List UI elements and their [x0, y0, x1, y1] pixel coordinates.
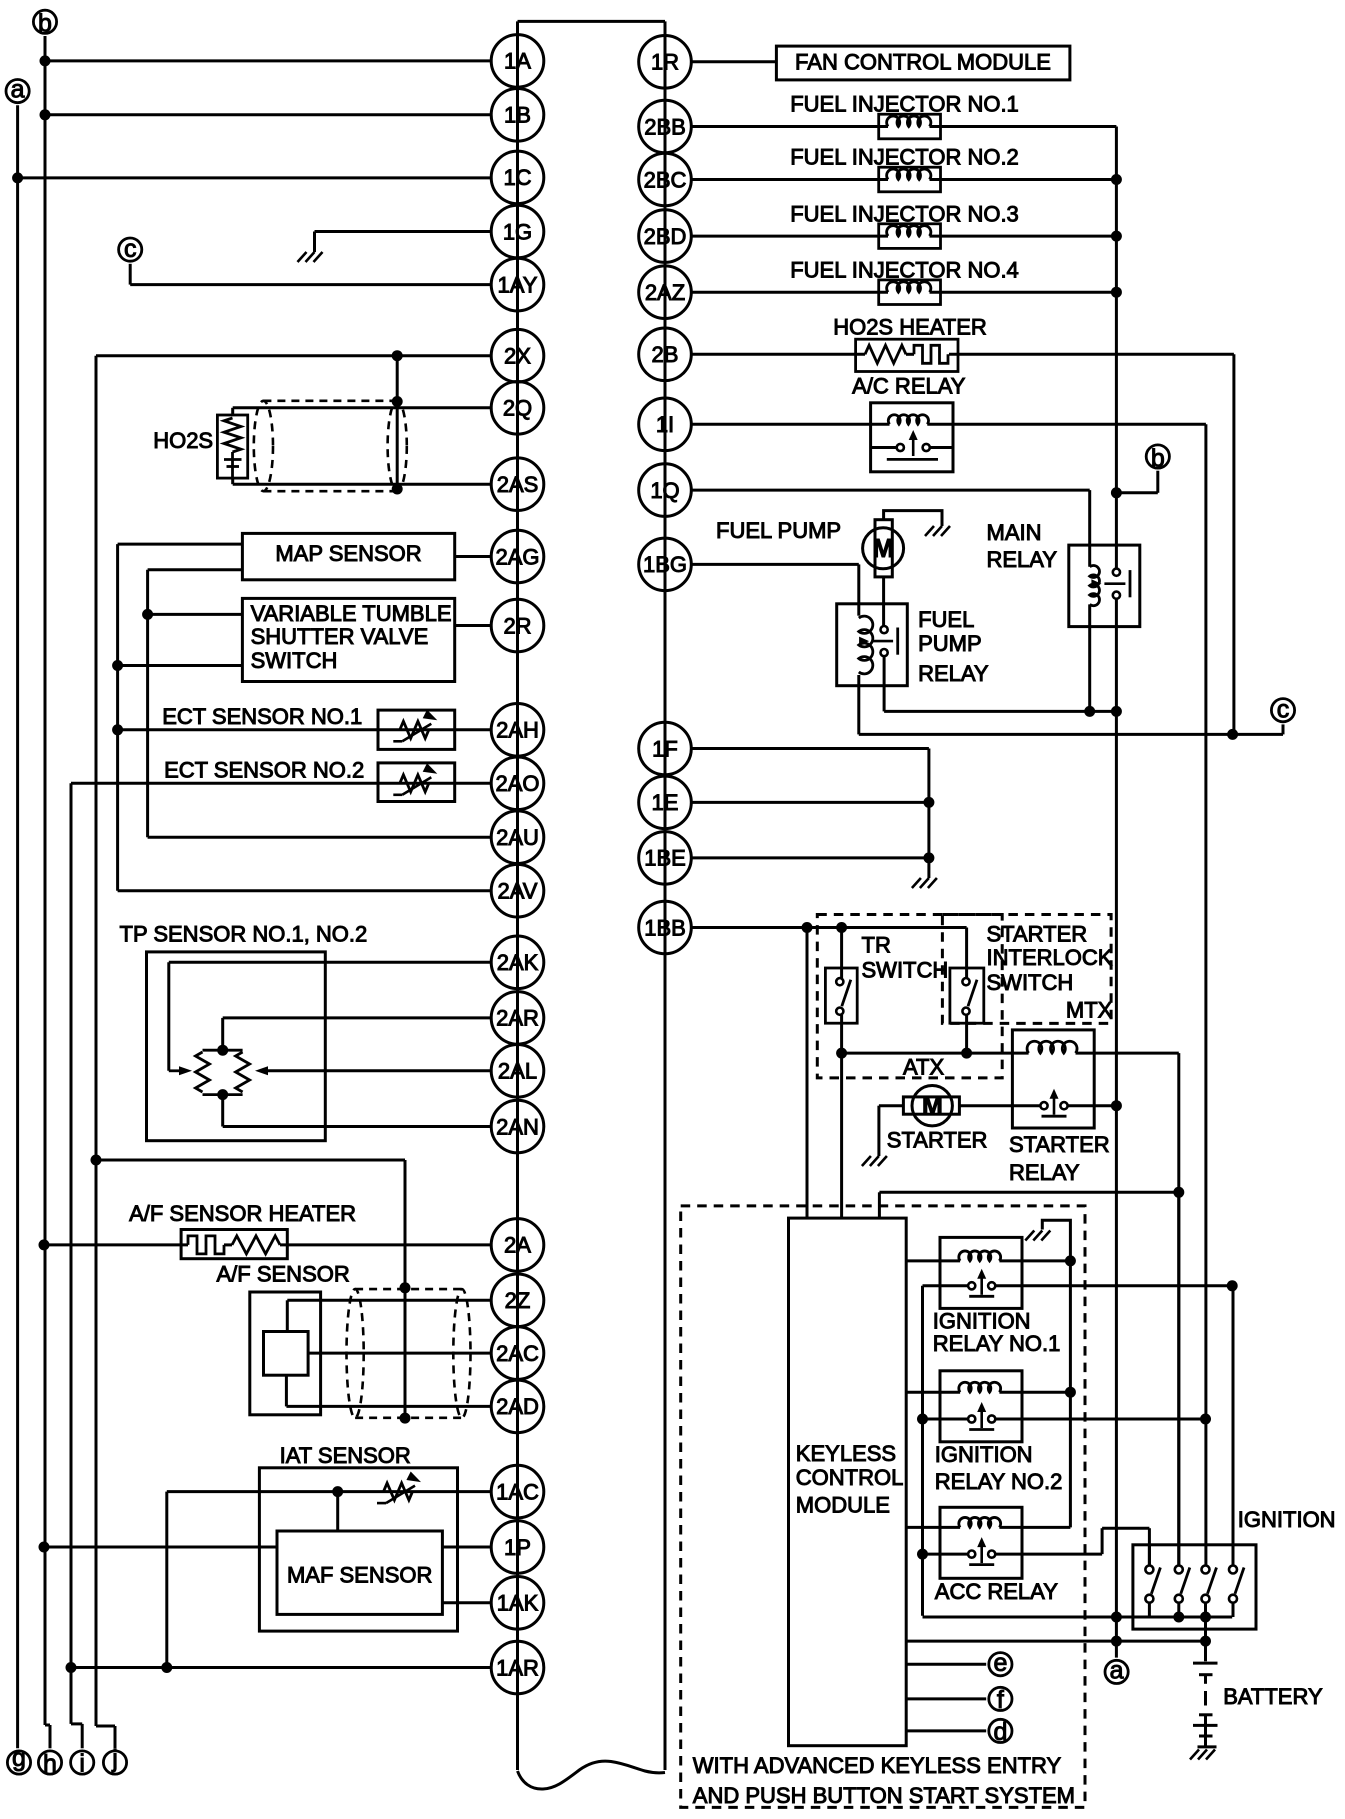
svg-text:1BE: 1BE — [644, 846, 686, 871]
svg-text:MAIN: MAIN — [987, 520, 1042, 545]
svg-text:M: M — [872, 533, 894, 563]
svg-text:AND PUSH BUTTON START SYSTEM: AND PUSH BUTTON START SYSTEM — [693, 1783, 1075, 1808]
svg-text:A/F SENSOR: A/F SENSOR — [217, 1262, 350, 1287]
svg-text:IGNITION: IGNITION — [933, 1309, 1031, 1334]
svg-text:STARTER: STARTER — [887, 1128, 988, 1153]
svg-text:2X: 2X — [504, 344, 531, 369]
svg-text:2AL: 2AL — [498, 1059, 537, 1084]
svg-text:c: c — [1277, 695, 1290, 723]
svg-text:1I: 1I — [656, 412, 674, 437]
svg-text:STARTER: STARTER — [1009, 1132, 1110, 1157]
svg-text:TR: TR — [862, 932, 891, 957]
svg-text:i: i — [79, 1749, 85, 1777]
svg-text:1R: 1R — [651, 50, 679, 75]
svg-text:1E: 1E — [652, 790, 679, 815]
svg-text:1BB: 1BB — [644, 915, 686, 940]
svg-text:a: a — [11, 76, 25, 104]
svg-text:KEYLESS: KEYLESS — [796, 1441, 896, 1466]
svg-text:b: b — [38, 10, 52, 38]
svg-text:RELAY: RELAY — [918, 661, 989, 686]
svg-text:MAP SENSOR: MAP SENSOR — [275, 541, 421, 566]
svg-text:BATTERY: BATTERY — [1223, 1684, 1323, 1709]
svg-text:SWITCH: SWITCH — [251, 648, 338, 673]
svg-text:1B: 1B — [504, 103, 531, 128]
svg-text:2AG: 2AG — [495, 544, 539, 569]
svg-text:FUEL: FUEL — [918, 607, 974, 632]
svg-text:SWITCH: SWITCH — [862, 958, 949, 983]
svg-text:b: b — [1151, 444, 1165, 472]
svg-text:1AK: 1AK — [497, 1591, 539, 1616]
svg-text:2AD: 2AD — [496, 1394, 539, 1419]
svg-text:ECT SENSOR NO.1: ECT SENSOR NO.1 — [162, 704, 362, 729]
svg-text:INTERLOCK: INTERLOCK — [987, 945, 1113, 970]
svg-text:ACC RELAY: ACC RELAY — [935, 1579, 1058, 1604]
svg-text:1BG: 1BG — [643, 552, 687, 577]
svg-text:2AZ: 2AZ — [645, 280, 685, 305]
svg-text:RELAY NO.2: RELAY NO.2 — [935, 1469, 1063, 1494]
svg-text:h: h — [43, 1750, 57, 1778]
svg-text:SWITCH: SWITCH — [987, 970, 1074, 995]
svg-text:IAT SENSOR: IAT SENSOR — [280, 1443, 411, 1468]
svg-text:FUEL PUMP: FUEL PUMP — [716, 518, 841, 543]
svg-text:1P: 1P — [504, 1535, 531, 1560]
svg-text:A/C RELAY: A/C RELAY — [852, 373, 966, 398]
svg-text:RELAY NO.1: RELAY NO.1 — [933, 1331, 1061, 1356]
svg-text:2BC: 2BC — [644, 167, 687, 192]
svg-text:1A: 1A — [504, 49, 531, 74]
svg-text:e: e — [993, 1649, 1007, 1677]
svg-text:CONTROL: CONTROL — [796, 1465, 904, 1490]
svg-text:MAF SENSOR: MAF SENSOR — [287, 1563, 432, 1588]
svg-text:M: M — [922, 1092, 943, 1120]
svg-text:1AC: 1AC — [496, 1479, 539, 1504]
svg-text:1C: 1C — [503, 165, 531, 190]
svg-text:1F: 1F — [652, 736, 678, 761]
svg-text:j: j — [111, 1745, 118, 1773]
svg-text:MTX: MTX — [1066, 997, 1113, 1022]
svg-text:1AY: 1AY — [498, 272, 538, 297]
svg-text:ATX: ATX — [903, 1055, 944, 1080]
svg-text:g: g — [12, 1744, 26, 1772]
svg-text:A/F SENSOR HEATER: A/F SENSOR HEATER — [129, 1201, 356, 1226]
svg-text:2BB: 2BB — [644, 114, 686, 139]
svg-text:d: d — [993, 1718, 1007, 1746]
svg-text:TP SENSOR NO.1, NO.2: TP SENSOR NO.1, NO.2 — [120, 921, 368, 946]
svg-text:IGNITION: IGNITION — [935, 1442, 1033, 1467]
svg-text:2Q: 2Q — [503, 396, 532, 421]
svg-text:MODULE: MODULE — [796, 1492, 890, 1517]
svg-text:2AN: 2AN — [496, 1114, 539, 1139]
svg-text:2R: 2R — [503, 613, 531, 638]
svg-text:FAN CONTROL MODULE: FAN CONTROL MODULE — [795, 50, 1051, 75]
svg-text:2AV: 2AV — [498, 879, 538, 904]
svg-text:HO2S: HO2S — [153, 428, 213, 453]
svg-text:a: a — [1110, 1657, 1124, 1685]
svg-text:2AO: 2AO — [495, 771, 539, 796]
svg-text:2B: 2B — [652, 342, 679, 367]
svg-text:2AK: 2AK — [497, 950, 539, 975]
svg-text:WITH ADVANCED KEYLESS ENTRY: WITH ADVANCED KEYLESS ENTRY — [693, 1753, 1062, 1778]
svg-text:f: f — [997, 1686, 1004, 1714]
svg-text:PUMP: PUMP — [918, 631, 982, 656]
svg-text:2A: 2A — [504, 1233, 531, 1258]
svg-text:2AH: 2AH — [496, 718, 539, 743]
svg-text:HO2S HEATER: HO2S HEATER — [833, 315, 987, 340]
svg-text:RELAY: RELAY — [1009, 1160, 1080, 1185]
svg-text:IGNITION: IGNITION — [1238, 1507, 1336, 1532]
svg-text:2AU: 2AU — [496, 825, 539, 850]
svg-text:1Q: 1Q — [650, 478, 679, 503]
svg-text:2AS: 2AS — [497, 472, 539, 497]
svg-text:STARTER: STARTER — [987, 922, 1088, 947]
svg-text:2BD: 2BD — [644, 224, 687, 249]
svg-text:2AR: 2AR — [496, 1006, 539, 1031]
svg-text:ECT SENSOR NO.2: ECT SENSOR NO.2 — [164, 758, 364, 783]
svg-text:1AR: 1AR — [496, 1655, 539, 1680]
svg-text:SHUTTER VALVE: SHUTTER VALVE — [251, 624, 429, 649]
svg-text:RELAY: RELAY — [987, 547, 1058, 572]
svg-text:VARIABLE TUMBLE: VARIABLE TUMBLE — [251, 601, 452, 626]
svg-text:1G: 1G — [503, 219, 532, 244]
svg-text:2AC: 2AC — [496, 1341, 539, 1366]
svg-text:c: c — [124, 235, 137, 263]
svg-text:2Z: 2Z — [505, 1288, 531, 1313]
